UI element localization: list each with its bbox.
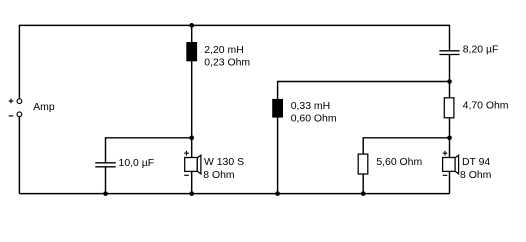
wire L2 upper lead [277,81,279,99]
label 0,33 mH 0,60 Ohm [291,101,337,125]
resistor 4,70 Ohm [444,98,454,118]
inductor 2,20 mH [186,42,197,61]
svg-text:8 Ohm: 8 Ohm [460,170,491,181]
wire R2 branch horizontal [363,137,449,139]
wire L2 branch horizontal [278,81,450,83]
speaker DT 94 [443,155,459,174]
svg-text:2,20 mH: 2,20 mH [204,45,243,56]
label W 130 S 8 Ohm [203,157,244,181]
wire L2 to bottom rail [277,117,279,193]
wire top rail [19,24,449,26]
wire R1 to tweeter [449,118,451,158]
svg-text:Amp: Amp [33,102,55,113]
wire main vertical to L1 [191,25,193,42]
plus sign woofer [184,151,189,156]
wire woofer to bottom rail [191,171,193,193]
wire tweeter to bottom rail [449,171,451,193]
svg-text:5,60 Ohm: 5,60 Ohm [376,157,422,168]
capacitor 8,20 uF [439,51,459,55]
svg-text:DT 94: DT 94 [462,157,490,168]
svg-text:0,60 Ohm: 0,60 Ohm [291,114,337,125]
svg-text:0,33 mH: 0,33 mH [291,101,330,112]
plus sign amp [9,99,14,104]
resistor 5,60 Ohm [358,154,368,174]
svg-text:W 130 S: W 130 S [204,157,244,168]
capacitor 10,0 uF [95,163,115,167]
inductor 0,33 mH [272,99,283,118]
wire right rail to C1 [449,25,451,51]
svg-text:4,70 Ohm: 4,70 Ohm [463,100,509,111]
minus sign tweeter [443,174,448,176]
wire cap C2 upper lead [105,137,107,162]
wire R2 to bottom rail [362,174,364,194]
speaker W 130 S [185,155,201,174]
amp terminal plus [17,99,22,104]
svg-text:8,20 µF: 8,20 µF [463,45,499,56]
label 2,20 mH 0,23 Ohm [204,45,250,69]
junction node right rail branch2 [447,79,452,84]
svg-text:8 Ohm: 8 Ohm [203,170,234,181]
junction node tweeter branch [447,135,452,140]
amp terminal minus [17,112,22,117]
wire C1 to R1 [449,55,451,98]
label DT 94 8 Ohm [460,157,491,181]
wire R2 upper lead [362,137,364,154]
wire left rail lower (amp -) [18,117,20,194]
svg-text:0,23 Ohm: 0,23 Ohm [204,57,250,68]
wire L1 to woofer [191,61,193,158]
wire bottom rail [19,193,449,195]
junction node bottom C2 [103,191,108,196]
junction node bottom woofer [189,191,194,196]
minus sign amp [9,115,14,117]
junction node woofer branch [189,135,194,140]
minus sign woofer [184,174,189,176]
wire cap C2 lower lead [105,167,107,194]
junction node L1 top [189,23,194,28]
wire woofer cap branch horizontal [106,137,192,139]
plus sign tweeter [443,151,448,156]
junction node bottom L2 [275,191,280,196]
wire left rail upper (amp +) [18,25,20,99]
svg-text:10,0 µF: 10,0 µF [119,158,155,169]
junction node bottom R2 [361,191,366,196]
